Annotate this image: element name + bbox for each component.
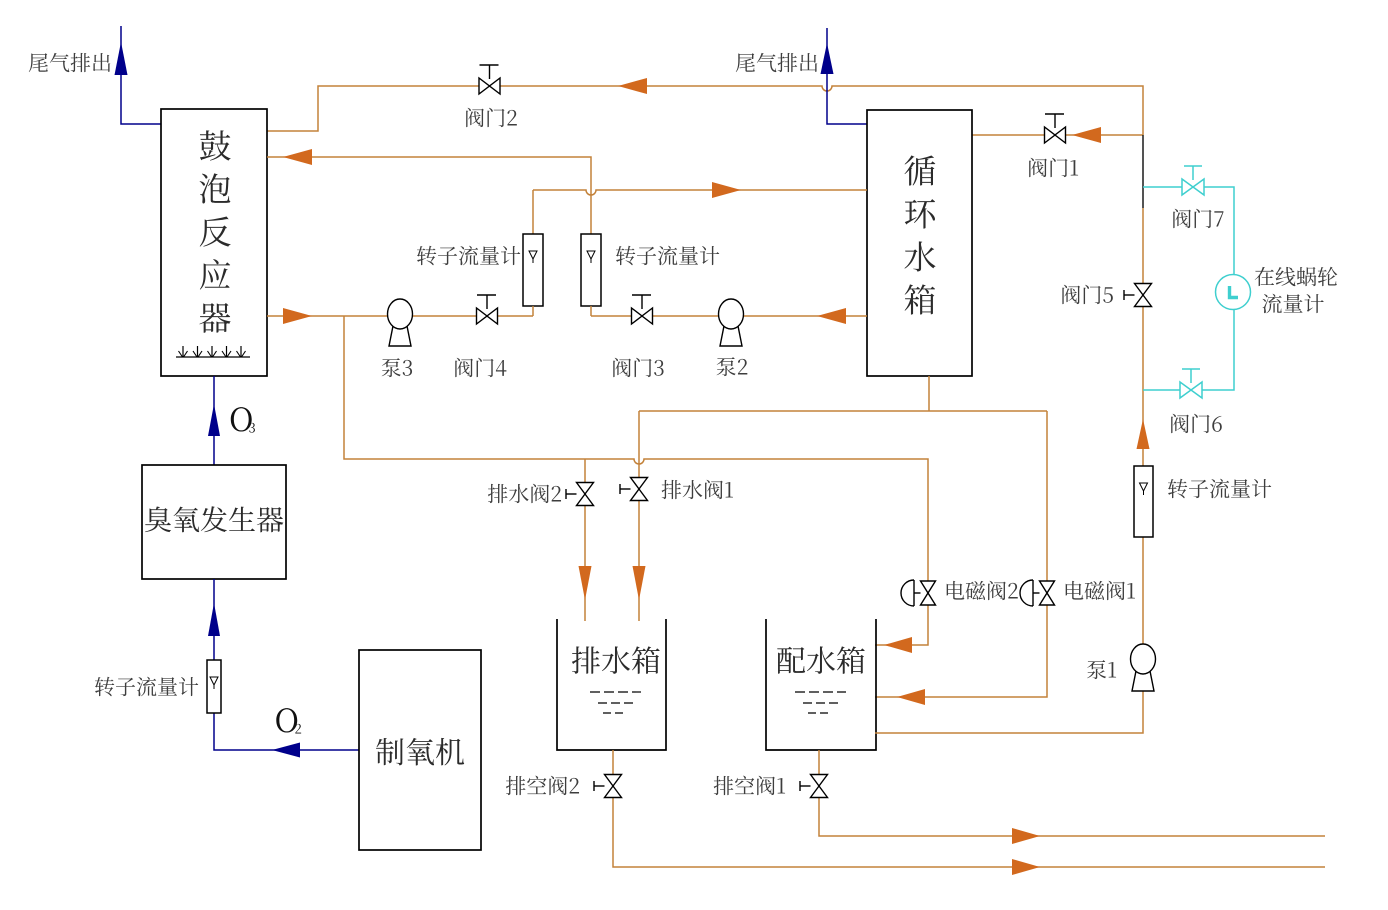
- wire: rotameter FM1 outlet to tank (orange, hop over FM2 riser): [533, 190, 867, 195]
- label 尾气排出 (left): [29, 53, 110, 72]
- rotameter FM2 转子流量计: [581, 234, 601, 306]
- label 循环水箱 (vertical): [904, 155, 935, 314]
- arrow: riser flow up: [1137, 419, 1150, 449]
- arrow: into drain tank (right): [633, 566, 646, 600]
- arrow: flow into reactor (y157): [283, 149, 312, 165]
- label 配水箱: [777, 646, 865, 674]
- label 排空阀1: [714, 776, 785, 795]
- label 排水箱: [572, 646, 660, 674]
- wire: drain valve 2 branch down to drain tank: [584, 459, 586, 621]
- valve V3 阀门3: [632, 295, 653, 324]
- circulating water tank 循环水箱: [867, 110, 972, 376]
- label 排空阀2: [506, 776, 579, 795]
- arrow: flow into tank (y190): [712, 182, 741, 198]
- bubble reactor vessel 鼓泡反应器: [161, 109, 267, 376]
- arrow: into drain tank (left): [579, 566, 592, 600]
- wire: O2 line oxygen gen to ozone gen (navy): [214, 579, 359, 750]
- arrow: into distribution tank (lower inlet): [897, 689, 925, 705]
- sparger (gas distributor) in reactor: [176, 346, 250, 357]
- arrow: bottom drain flow right (lower): [1012, 859, 1040, 875]
- arrow: tail gas discharge up (right): [821, 43, 834, 74]
- label 鼓泡反应器 (vertical): [199, 130, 230, 332]
- label 阀门7: [1173, 209, 1223, 228]
- distribution tank 配水箱 (open top): [766, 619, 876, 750]
- valve V7 阀门7 (cyan): [1182, 166, 1204, 195]
- pump P1 泵1: [1131, 644, 1156, 691]
- valve V5 阀门5: [1124, 284, 1152, 307]
- label 流量计: [1262, 294, 1323, 314]
- oxygen generator 制氧机: [359, 650, 481, 850]
- arrow: O2 up into ozone generator: [208, 603, 220, 636]
- arrow: into circulating tank (valve1 line): [1072, 127, 1101, 143]
- vent valve 排空阀1: [800, 775, 828, 798]
- wire: pump P1 discharge riser: [1142, 208, 1144, 644]
- water level mark (drain tank): [590, 692, 641, 713]
- label 阀门3: [613, 358, 663, 377]
- valve V4 阀门4: [477, 295, 498, 324]
- arrow: into distribution tank (upper inlet): [884, 637, 912, 653]
- rotameter FM4 转子流量计 (riser): [1134, 466, 1153, 537]
- wire: solenoid SV1 branch into distribution tank: [875, 411, 1047, 697]
- wire: black riser segment: [1142, 135, 1144, 208]
- arrow: tail gas discharge up (left): [115, 42, 128, 75]
- arrow: bottom drain flow right (upper): [1012, 828, 1040, 844]
- wire: left tail-gas vent line (navy): [121, 26, 162, 124]
- pump P2 泵2: [719, 299, 744, 346]
- wire: FM2 drop to pump line: [590, 306, 592, 316]
- solenoid valve SV1 电磁阀1: [1020, 580, 1055, 606]
- wire: turbine meter bypass (cyan): [1143, 187, 1234, 390]
- wire: FM1 drop to pump line: [532, 306, 534, 316]
- wire: tank to reactor upper return (orange): [267, 157, 591, 234]
- wire: O3 line reactor to ozone generator (navy): [213, 376, 215, 465]
- wire: reactor lower outlet to FM1 (orange): [267, 315, 533, 317]
- solenoid valve SV2 电磁阀2: [901, 580, 936, 606]
- rotameter FM3 转子流量计 (O2 line): [207, 660, 221, 713]
- label 转子流量计 (left of FM1): [417, 246, 520, 266]
- wire: valve V1 line into circulating tank (orange): [972, 134, 1143, 136]
- label 阀门2: [466, 108, 517, 127]
- label 阀门1: [1029, 158, 1078, 177]
- label 排水阀2: [488, 484, 561, 503]
- wire: reactor top gas outlet to valve V2 and across (orange): [267, 86, 1143, 135]
- wire: vent drain from distribution tank (排空阀1): [819, 750, 1325, 836]
- label 制氧机: [376, 738, 464, 766]
- ozone generator 臭氧发生器: [142, 465, 286, 579]
- wire: drain header from reactor loop to solenoid SV2 (orange): [344, 316, 928, 645]
- arrow: O3 up into reactor: [208, 404, 220, 436]
- turbine flow meter circle 在线蜗轮流量计: [1216, 275, 1251, 310]
- label 电磁阀2: [947, 581, 1018, 600]
- pump P3 泵3: [388, 299, 413, 346]
- label 阀门6: [1171, 414, 1222, 433]
- wire: circulating tank bottom header: [639, 376, 1047, 411]
- valve V1 阀门1: [1045, 114, 1066, 143]
- valve V6 阀门6 (cyan): [1180, 369, 1202, 398]
- label 阀门4: [455, 358, 506, 377]
- label 转子流量计 (riser): [1168, 479, 1271, 499]
- label 泵1: [1087, 660, 1116, 679]
- rotameter FM1 转子流量计: [523, 234, 543, 306]
- label 在线蜗轮: [1255, 267, 1338, 286]
- wire: distribution tank to pump P1 suction: [875, 691, 1143, 733]
- label O3: [231, 407, 255, 433]
- drain valve 排水阀1: [620, 478, 648, 501]
- label 转子流量计 (O2 line): [95, 677, 198, 697]
- wire: right tail-gas vent (navy): [827, 28, 867, 124]
- label 转子流量计 (right of FM2): [616, 246, 719, 266]
- label 泵2: [717, 357, 748, 376]
- wire: FM1 riser: [532, 190, 534, 234]
- arrow: flow toward pump P2: [817, 308, 846, 324]
- label 排水阀1: [662, 480, 733, 499]
- drain tank 排水箱 (open top): [557, 619, 666, 750]
- arrow: gas flow toward reactor (top line): [618, 78, 647, 94]
- drain valve 排水阀2: [566, 483, 594, 506]
- label 尾气排出 (right): [736, 53, 817, 72]
- wire: vent drain from drain tank (排空阀2): [613, 750, 1325, 867]
- vent valve 排空阀2: [594, 775, 622, 798]
- label 泵3: [382, 358, 412, 377]
- water level mark (distribution tank): [795, 692, 846, 713]
- label 阀门5: [1062, 285, 1112, 304]
- label 臭氧发生器: [145, 506, 283, 532]
- wire: drain valve 1 branch down to drain tank: [638, 411, 640, 621]
- label O2: [276, 708, 301, 733]
- arrow: flow out of reactor (y316): [283, 308, 312, 324]
- arrow: O2 flow left: [272, 743, 300, 758]
- label 电磁阀1: [1066, 581, 1135, 600]
- wire: tank outlet to FM2 via pump P2 (orange): [591, 315, 867, 317]
- valve V2 阀门2: [479, 65, 500, 94]
